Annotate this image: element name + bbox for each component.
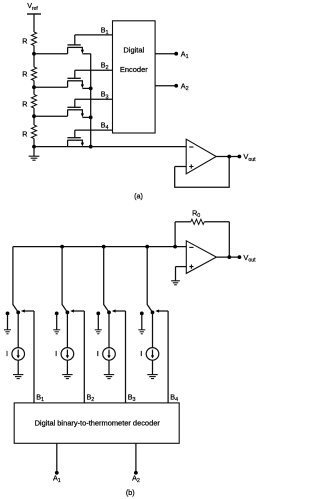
switch S4 ground [138, 313, 145, 333]
svg-text:I: I [140, 349, 142, 358]
resistor R3 [22, 87, 36, 116]
wire R1 to node n1 [33, 46, 35, 54]
svg-text:A2: A2 [132, 474, 140, 485]
svg-text:B2: B2 [87, 392, 95, 403]
svg-text:Digital binary-to-thermometer: Digital binary-to-thermometer decoder [35, 419, 161, 428]
resistor R4 [22, 116, 36, 146]
wire node n1 to Q1 gate [34, 53, 68, 55]
op-amp U2 minus sign [189, 146, 193, 148]
wire output A2 [155, 85, 176, 87]
terminal dot V_out (b) [238, 255, 242, 259]
svg-text:R: R [22, 99, 27, 108]
wire U3 plus to ground [175, 267, 177, 281]
wire U2 plus input [175, 166, 187, 168]
node n3 junction dot [32, 114, 36, 118]
svg-text:I: I [55, 349, 57, 358]
junction dot summing node [173, 245, 177, 249]
current source I3 [103, 348, 116, 361]
wire B3 row [75, 98, 113, 100]
wire bit line B2 [83, 311, 85, 403]
wire node n3 to Q3 gate [34, 115, 68, 117]
wire comparator input row [34, 146, 186, 148]
current source I3 ground [104, 374, 114, 376]
terminal dot A1 (b) [55, 471, 59, 475]
wire B1 row [75, 34, 113, 36]
wire summing rail [13, 246, 186, 248]
svg-text:(b): (b) [126, 488, 135, 497]
wire U2 feedback loop [175, 157, 230, 188]
wire decoder output A2 [135, 443, 137, 473]
resistor R0 [175, 219, 229, 224]
wire node n2 to Q2 gate [34, 86, 68, 88]
wire U3 plus input [176, 266, 187, 268]
digital encoder box U1 [113, 21, 156, 133]
svg-text:I: I [97, 349, 99, 358]
svg-text:B1: B1 [36, 392, 44, 403]
svg-text:Vout: Vout [243, 253, 256, 264]
node n4 junction dot [32, 145, 36, 149]
V_ref supply terminal bar [27, 13, 41, 15]
wire switch S4 pole to current source [152, 312, 154, 347]
op-amp U3 triangle [186, 241, 216, 274]
svg-text:Vout: Vout [243, 152, 256, 163]
svg-text:B1: B1 [101, 25, 109, 36]
svg-text:B3: B3 [128, 392, 136, 403]
switch S3 ground [95, 313, 102, 333]
junction dot U2 output/feedback [227, 155, 231, 159]
svg-text:Encoder: Encoder [120, 65, 148, 74]
svg-text:R0: R0 [192, 208, 200, 219]
transistor Q2 [67, 70, 90, 88]
svg-text:Vref: Vref [27, 1, 38, 12]
wire R0 left leg to summing node [174, 222, 176, 247]
wire B4 row [75, 129, 113, 131]
wire V_ref to R1 [33, 14, 35, 32]
wire current source I1 to ground [17, 360, 19, 374]
wire switch S3 pole to current source [108, 312, 110, 347]
transistor Q4 [67, 130, 90, 147]
node n2 junction dot [32, 85, 36, 89]
switch S4 [140, 247, 168, 316]
op-amp U2 triangle [186, 139, 216, 174]
current source I2 [61, 348, 74, 361]
switch S3 [96, 247, 125, 316]
chain junction dot at n2 level [89, 87, 93, 91]
op-amp U3 plus sign [189, 265, 193, 269]
switch S1 ground [4, 313, 11, 333]
terminal dot V_out (a) [238, 155, 242, 159]
current source I4 ground [147, 374, 157, 376]
resistor R1 [22, 32, 36, 46]
svg-text:(a): (a) [134, 191, 143, 200]
wire switch S2 pole to current source [66, 312, 68, 347]
rail junction dot branch 3 [102, 245, 106, 249]
switch S2 ground [53, 313, 60, 333]
node n1 junction dot [32, 52, 36, 56]
current source I1 ground [13, 374, 23, 376]
svg-text:B4: B4 [170, 392, 178, 403]
svg-text:A1: A1 [181, 49, 189, 60]
rail junction dot branch 4 [145, 245, 149, 249]
svg-text:R: R [22, 70, 27, 79]
junction dot U3 output/feedback [227, 255, 231, 259]
wire B2 row [75, 69, 113, 71]
wire decoder output A1 [56, 443, 58, 473]
wire U3 output [216, 256, 239, 258]
wire current source I4 to ground [152, 360, 154, 374]
svg-text:Digital: Digital [123, 45, 144, 54]
decoder box U4 [14, 403, 179, 443]
wire bit line B3 [125, 311, 127, 403]
wire current source I3 to ground [108, 360, 110, 374]
switch S1 [6, 247, 34, 316]
wire U2 output [216, 156, 239, 158]
rail junction dot branch 2 [60, 245, 64, 249]
terminal dot A1 [174, 52, 178, 56]
current source I4 [146, 348, 159, 361]
wire bit line B1 [33, 311, 35, 403]
chain junction dot on comparator row [89, 145, 93, 149]
wire current source I2 to ground [66, 360, 68, 374]
chain junction dot at n3 level [89, 116, 93, 120]
current source I2 ground [62, 374, 72, 376]
svg-text:R: R [22, 130, 27, 139]
ladder ground [29, 147, 40, 161]
transistor Q3 [67, 99, 90, 117]
wire output A1 [155, 53, 176, 55]
svg-text:R: R [22, 36, 27, 45]
transistor Q1 [67, 35, 90, 54]
op-amp U3 minus sign [189, 246, 193, 248]
terminal dot A2 (b) [134, 471, 138, 475]
svg-text:I: I [6, 349, 8, 358]
wire R0 right leg to output [228, 222, 230, 257]
resistor R2 [22, 54, 36, 87]
op-amp U2 plus sign [189, 164, 193, 168]
terminal dot A2 [174, 84, 178, 88]
wire switch S1 pole to current source [17, 312, 19, 347]
current source I1 [12, 348, 25, 361]
switch S2 [55, 247, 85, 316]
wire bit line B4 [167, 311, 169, 403]
svg-text:A2: A2 [181, 81, 189, 92]
svg-text:A1: A1 [53, 474, 61, 485]
wire chain (Q sources bus) [90, 54, 92, 147]
U3 ground [171, 280, 180, 282]
